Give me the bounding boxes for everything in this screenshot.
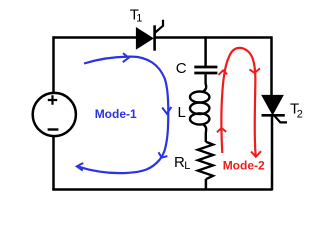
- thyristor T2 triangle: [262, 95, 283, 114]
- Mode-2 red loop hairpin: [221, 48, 255, 156]
- Mode-1 arrowhead left (bottom end): [77, 163, 83, 171]
- inductor L loop 3: [190, 113, 209, 124]
- svg-text:Mode-2: Mode-2: [223, 159, 265, 173]
- svg-text:L: L: [178, 104, 186, 121]
- svg-text:Mode-1: Mode-1: [95, 107, 137, 121]
- capacitor C top plate: [194, 66, 217, 69]
- wire inductor to resistor: [203, 124, 206, 142]
- capacitor C bottom plate: [194, 72, 217, 75]
- wire top-left segment: [53, 36, 136, 39]
- svg-text:1: 1: [136, 13, 142, 25]
- inductor L loop 1: [190, 92, 209, 103]
- Mode-1 blue loop arc: [78, 57, 169, 174]
- wire right vertical lower: [271, 115, 274, 190]
- wire bottom: [52, 188, 272, 191]
- Mode-1 arrowhead down (right side): [162, 107, 171, 114]
- Mode-2 arrowhead up (left line upper): [219, 70, 228, 74]
- voltage source V1 circle: [33, 93, 76, 136]
- thyristor T2 cathode bar: [262, 114, 285, 117]
- thyristor T1 gate: [155, 20, 163, 33]
- inductor L loop 2: [190, 103, 209, 115]
- Mode-1 arrowhead right (top arc): [123, 53, 129, 62]
- wire top-right segment: [155, 36, 272, 39]
- svg-text:2: 2: [297, 108, 303, 120]
- Mode-1 arrowhead down-left (bottom bend): [159, 152, 168, 157]
- thyristor T1 triangle: [136, 28, 153, 49]
- wire middle branch top: [204, 36, 207, 66]
- wire left vertical lower: [52, 136, 55, 190]
- wire right vertical upper: [270, 36, 273, 96]
- svg-text:L: L: [184, 160, 190, 172]
- thyristor T1 cathode bar: [153, 25, 156, 50]
- resistor RL zigzag: [198, 142, 213, 179]
- wire left vertical upper: [52, 36, 55, 93]
- wire capacitor to inductor: [203, 74, 206, 92]
- voltage source plus sign: [48, 95, 57, 104]
- svg-text:C: C: [176, 60, 187, 77]
- Mode-2 arrowhead down (right line upper): [249, 68, 260, 73]
- Mode-2 arrowhead down (right line end): [251, 151, 261, 157]
- wire resistor to bottom: [205, 179, 208, 190]
- thyristor T2 gate: [274, 115, 287, 122]
- voltage source minus sign: [48, 128, 59, 130]
- Mode-2 arrowhead up (left line lower): [217, 128, 226, 132]
